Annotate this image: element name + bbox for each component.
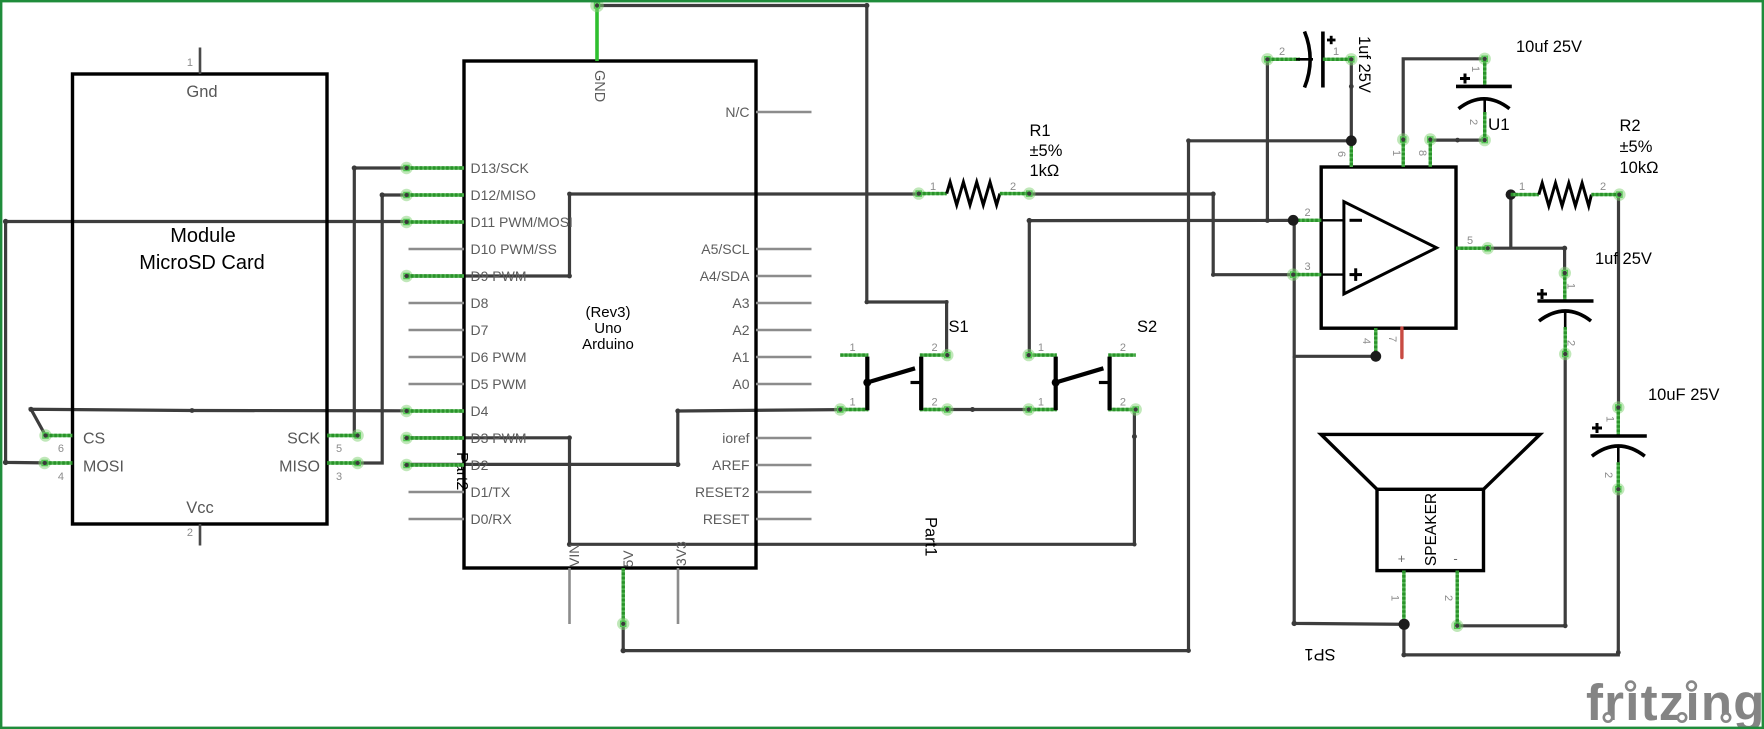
svg-text:GND: GND	[591, 70, 607, 102]
Arduino pin D12/MISO	[400, 189, 412, 201]
svg-text:fritzing: fritzing	[1586, 674, 1764, 729]
svg-text:1: 1	[1389, 595, 1401, 601]
svg-text:Arduino: Arduino	[582, 336, 634, 353]
svg-text:5: 5	[1467, 235, 1473, 247]
Arduino VIN pin (bottom)	[568, 568, 571, 624]
S2 pin 2 bottom lead	[1108, 408, 1135, 411]
svg-text:10uf 25V: 10uf 25V	[1516, 38, 1582, 56]
U1 pin 2 lead	[1293, 219, 1321, 222]
Arduino pin D4	[400, 405, 412, 417]
svg-text:10uF 25V: 10uF 25V	[1648, 386, 1720, 404]
svg-text:1: 1	[1390, 150, 1402, 156]
wire R1 pin2 to U1 pin3	[1029, 194, 1293, 275]
SP1 junction dot	[1399, 619, 1410, 630]
U1 triangle	[1344, 202, 1437, 294]
Arduino pin D0/RX	[409, 518, 465, 521]
wire 5V to U1 pin6	[623, 141, 1351, 651]
wire U1 pin1 to 10uf cap C2 pin1	[1403, 59, 1485, 140]
svg-text:3: 3	[336, 471, 342, 483]
wire D9 PWM to R1 pin1	[407, 194, 918, 276]
Arduino pin D11 PWM/MOSI	[400, 216, 412, 228]
wire 1uf cap C1 pin2 down to U1 pin2 net	[1266, 59, 1269, 220]
svg-text:(Rev3): (Rev3)	[585, 304, 630, 321]
Arduino pin AREF	[756, 464, 812, 467]
speaker SP1	[1377, 489, 1484, 570]
SP1 pin 1 lead	[1402, 571, 1405, 625]
svg-text:A4/SDA: A4/SDA	[700, 268, 750, 284]
wire D4 to SD CS	[31, 409, 407, 435]
svg-text:1: 1	[849, 342, 855, 354]
pin 1 Gnd (top, unconnected)	[199, 48, 202, 75]
Arduino pin A0	[756, 383, 812, 386]
Arduino pin D2	[400, 459, 412, 471]
wire 10uF cap C3 pin2 down-left to speaker pin1 node	[1404, 489, 1618, 655]
svg-text:S2: S2	[1137, 318, 1157, 336]
S2 pin 2 top lead	[1108, 353, 1135, 356]
svg-text:3: 3	[1304, 261, 1310, 273]
svg-text:2: 2	[931, 342, 937, 354]
svg-text:2: 2	[1279, 46, 1285, 58]
Arduino pin N/C	[756, 111, 812, 114]
wire 1uf cap C1 pin1 down to U1 pin6 node	[1350, 59, 1353, 141]
svg-text:Vcc: Vcc	[186, 499, 214, 517]
svg-text:2: 2	[1600, 181, 1606, 193]
svg-text:2: 2	[1120, 342, 1126, 354]
svg-text:1: 1	[1565, 283, 1577, 289]
Arduino pin A5/SCL	[756, 248, 812, 251]
plus sign	[1350, 273, 1363, 276]
svg-text:6: 6	[58, 443, 64, 455]
wire D11/MOSI to SD MOSI	[6, 222, 407, 463]
svg-text:8: 8	[1416, 150, 1428, 156]
Arduino pin D8	[409, 302, 465, 305]
C4 plus mark	[1537, 293, 1547, 296]
Arduino Uno (Part2) box	[464, 61, 756, 568]
U1 pin 8 lead	[1424, 133, 1436, 145]
svg-text:-: -	[1453, 551, 1457, 566]
svg-text:D1/TX: D1/TX	[471, 484, 511, 500]
svg-text:6: 6	[1335, 151, 1347, 157]
S1 pin 2 bottom lead	[920, 408, 947, 411]
svg-text:Module: Module	[170, 225, 236, 247]
wire S2 pin1 top to U1 pin2	[1029, 220, 1293, 355]
pin 3 MISO lead	[351, 457, 363, 469]
svg-text:2: 2	[1442, 595, 1454, 601]
U1 pin 6 lead	[1350, 141, 1353, 167]
svg-text:2: 2	[1602, 472, 1614, 478]
wire U1 pin5 output to 1uf cap C4 pin1	[1488, 247, 1565, 250]
svg-text:D9 PWM: D9 PWM	[471, 268, 527, 284]
svg-text:5: 5	[336, 443, 342, 455]
svg-text:4: 4	[58, 471, 64, 483]
svg-text:1: 1	[1038, 397, 1044, 409]
wire D13/SCK to SD SCK	[354, 168, 408, 436]
svg-text:ioref: ioref	[722, 430, 749, 446]
op-amp U1 box	[1321, 167, 1456, 328]
Arduino pin RESET	[756, 518, 812, 521]
svg-text:2: 2	[1010, 181, 1016, 193]
svg-text:7: 7	[1386, 336, 1398, 342]
svg-text:1uf 25V: 1uf 25V	[1595, 250, 1652, 268]
S2 connection glows	[1022, 349, 1034, 361]
S2 pin 1 top lead	[1029, 353, 1057, 356]
pin 5 SCK lead	[351, 429, 363, 441]
Arduino 5V pin (bottom, connected)	[622, 568, 625, 624]
Arduino pin D1/TX	[409, 491, 465, 494]
S2 body	[1054, 357, 1058, 411]
svg-text:1uf 25V: 1uf 25V	[1355, 36, 1373, 93]
svg-text:SPEAKER: SPEAKER	[1423, 493, 1440, 566]
svg-text:D5 PWM: D5 PWM	[471, 376, 527, 392]
U1 pin 7 lead (bypass, unconnected red)	[1400, 328, 1403, 358]
wire D2 to S1 pin1 bottom	[407, 410, 841, 465]
svg-text:R1: R1	[1030, 122, 1051, 140]
svg-text:MISO: MISO	[279, 459, 320, 476]
C3 plus mark	[1592, 427, 1602, 430]
svg-text:A1: A1	[732, 349, 749, 365]
wire 10uf cap C2 pin2 to U1 pin8	[1430, 139, 1484, 142]
resistor R2 10k	[1506, 189, 1516, 199]
C2 plus mark	[1460, 77, 1470, 80]
pin 2 Vcc (bottom, unconnected)	[199, 524, 202, 546]
wire D3 PWM to S2 pin2 bottom	[407, 410, 1135, 545]
Arduino pin A3	[756, 302, 812, 305]
svg-text:1kΩ: 1kΩ	[1030, 162, 1060, 180]
SP1 pin 2 lead	[1451, 620, 1463, 632]
Arduino pin D3 PWM	[400, 432, 412, 444]
pin 4 MOSI lead	[38, 457, 50, 469]
svg-text:+: +	[1398, 551, 1406, 566]
svg-text:U1: U1	[1488, 115, 1510, 134]
svg-text:N/C: N/C	[725, 104, 749, 120]
svg-text:1: 1	[1604, 416, 1616, 422]
capacitor C1 1uf 25V (horizontal, top)	[1261, 53, 1273, 65]
svg-text:4: 4	[1360, 338, 1372, 344]
module MicroSD Card box	[73, 74, 328, 524]
minus sign	[1350, 219, 1363, 222]
svg-text:D2: D2	[471, 457, 489, 473]
svg-text:D8: D8	[471, 295, 489, 311]
Arduino pin RESET2	[756, 491, 812, 494]
svg-text:5V: 5V	[620, 550, 636, 568]
svg-text:1: 1	[187, 57, 193, 69]
svg-text:D4: D4	[471, 403, 489, 419]
wire GND net: Arduino GND pin to S1 pin2 top	[597, 6, 947, 356]
svg-text:D0/RX: D0/RX	[471, 511, 513, 527]
svg-text:D6 PWM: D6 PWM	[471, 349, 527, 365]
capacitor C2 10uf 25V (vertical, top right)	[1479, 53, 1491, 65]
S1 pin 1 top lead	[840, 353, 868, 356]
wire D12/MISO to SD MISO	[358, 195, 409, 463]
resistor R1 1k	[913, 187, 925, 199]
Arduino pin D13/SCK	[400, 162, 412, 174]
svg-text:D3 PWM: D3 PWM	[471, 430, 527, 446]
svg-text:A0: A0	[732, 376, 749, 392]
Arduino pin A1	[756, 356, 812, 359]
svg-text:RESET2: RESET2	[695, 484, 750, 500]
Arduino pin A4/SDA	[756, 275, 812, 278]
svg-text:SCK: SCK	[287, 431, 320, 448]
svg-text:A3: A3	[732, 295, 749, 311]
capacitor C3 10uF 25V (vertical, right)	[1612, 401, 1624, 413]
svg-text:2: 2	[1120, 397, 1126, 409]
svg-text:RESET: RESET	[703, 511, 750, 527]
svg-text:D10 PWM/SS: D10 PWM/SS	[471, 241, 557, 257]
svg-text:Uno: Uno	[594, 320, 622, 337]
Arduino 3V3 pin (bottom)	[677, 568, 680, 624]
svg-text:D13/SCK: D13/SCK	[471, 160, 530, 176]
svg-text:D12/MISO: D12/MISO	[471, 187, 536, 203]
U1 pin 3 lead	[1287, 268, 1299, 280]
svg-text:VIN: VIN	[566, 544, 582, 567]
svg-text:D11 PWM/MOSI: D11 PWM/MOSI	[471, 214, 573, 230]
Arduino GND pin (top) with green wire up	[595, 5, 599, 62]
svg-text:SP1: SP1	[1304, 645, 1335, 663]
svg-text:Part2: Part2	[453, 452, 470, 490]
Arduino pin A2	[756, 329, 812, 332]
wire GND net: U1 pin2 - pin4 - speaker plus	[1294, 220, 1376, 356]
S1 connection glows	[834, 403, 846, 415]
pin 6 CS lead	[39, 429, 51, 441]
svg-text:AREF: AREF	[712, 457, 749, 473]
svg-text:2: 2	[187, 527, 193, 539]
svg-text:Part1: Part1	[922, 517, 940, 556]
svg-text:D7: D7	[471, 322, 489, 338]
Arduino pin D7	[409, 329, 465, 332]
Arduino pin ioref	[756, 437, 812, 440]
C1 plus mark	[1327, 39, 1336, 42]
svg-text:S1: S1	[949, 318, 969, 336]
capacitor C4 1uf 25V (vertical, output)	[1559, 267, 1571, 279]
svg-text:1: 1	[1469, 66, 1481, 72]
Arduino pin D9 PWM	[400, 270, 412, 282]
U1 pin 4 lead (GND)	[1374, 328, 1377, 356]
wire R2 pin2 down to 10uF cap C3 pin1	[1617, 195, 1621, 408]
svg-text:2: 2	[1565, 340, 1577, 346]
svg-text:2: 2	[1304, 207, 1310, 219]
svg-text:1: 1	[1333, 46, 1339, 58]
S1 pin 2 top lead	[920, 353, 947, 356]
S1 pin 1 bottom lead	[840, 408, 868, 411]
svg-text:CS: CS	[83, 431, 105, 448]
S2 pin 1 bottom lead	[1029, 408, 1057, 411]
U1 pin 5 lead	[1482, 242, 1494, 254]
svg-text:1: 1	[1038, 342, 1044, 354]
svg-text:10kΩ: 10kΩ	[1620, 159, 1659, 177]
svg-text:±5%: ±5%	[1620, 138, 1653, 156]
svg-text:2: 2	[931, 397, 937, 409]
svg-text:MOSI: MOSI	[83, 459, 124, 476]
svg-text:MicroSD Card: MicroSD Card	[139, 252, 265, 274]
svg-text:Gnd: Gnd	[186, 83, 217, 101]
svg-text:3V3: 3V3	[673, 541, 689, 566]
wire R2 pin1 branch to output node	[1509, 195, 1512, 249]
svg-text:A2: A2	[732, 322, 749, 338]
Arduino pin D6 PWM	[409, 356, 465, 359]
svg-text:1: 1	[1519, 181, 1525, 193]
svg-text:R2: R2	[1620, 117, 1641, 135]
svg-text:1: 1	[930, 181, 936, 193]
S1 body	[865, 357, 869, 411]
wire S1 pin2 bottom to S2 pin1 bottom	[947, 408, 1028, 411]
svg-text:2: 2	[1467, 119, 1479, 125]
wire 1uf cap C4 pin2 down to speaker pin2	[1457, 354, 1565, 626]
Arduino pin D10 PWM/SS	[409, 248, 465, 251]
Arduino pin D5 PWM	[409, 383, 465, 386]
svg-text:A5/SCL: A5/SCL	[701, 241, 749, 257]
svg-text:±5%: ±5%	[1030, 142, 1063, 160]
U1 pin 1 lead	[1397, 133, 1409, 145]
svg-text:1: 1	[849, 397, 855, 409]
